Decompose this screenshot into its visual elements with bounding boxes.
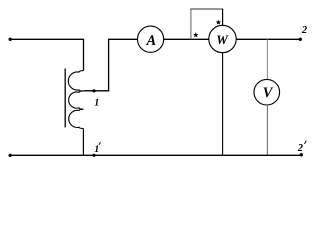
node: terminal 2 dot (299, 38, 302, 41)
wattmeter W1 circle (209, 25, 236, 52)
wire: A to W (164, 38, 209, 40)
wire: voltage-coil bridge right leg (222, 9, 224, 25)
wire: top-left lead from terminal to coil corner (10, 39, 84, 70)
asterisk marking at W voltage terminal (216, 20, 221, 25)
wire: bottom rail (10, 154, 301, 156)
node 1': junction dot on bottom rail (92, 154, 95, 157)
wire: V branch upper (266, 39, 268, 79)
wire: V branch lower (266, 105, 268, 155)
node: left bottom terminal dot (9, 154, 12, 157)
wire: coil bottom to bottom rail (82, 129, 84, 156)
asterisk marking on line before W (193, 32, 198, 37)
wire: voltage-coil bridge top (190, 8, 223, 10)
svg-text:2: 2 (301, 25, 308, 36)
svg-text:1: 1 (94, 144, 99, 155)
ammeter A1 circle (138, 26, 164, 52)
node: terminal 2' dot (300, 153, 303, 156)
voltmeter V1 circle (254, 79, 280, 105)
core bar of winding (64, 69, 66, 128)
inductor L1 (tapped winding, 3 arcs) (68, 71, 83, 129)
wire: tap from coil to riser (84, 39, 138, 91)
wire: voltage-coil bridge left leg (190, 9, 192, 39)
svg-text:A: A (145, 33, 156, 49)
node 1: tap junction dot (92, 89, 95, 92)
svg-text:W: W (216, 32, 229, 47)
node: left top terminal dot (9, 38, 12, 41)
wire: W bottom to bottom rail (222, 53, 224, 156)
wire: W to right terminal 2 (236, 38, 300, 40)
svg-text:V: V (263, 85, 274, 101)
svg-text:2: 2 (297, 143, 304, 154)
svg-text:1: 1 (94, 97, 99, 108)
